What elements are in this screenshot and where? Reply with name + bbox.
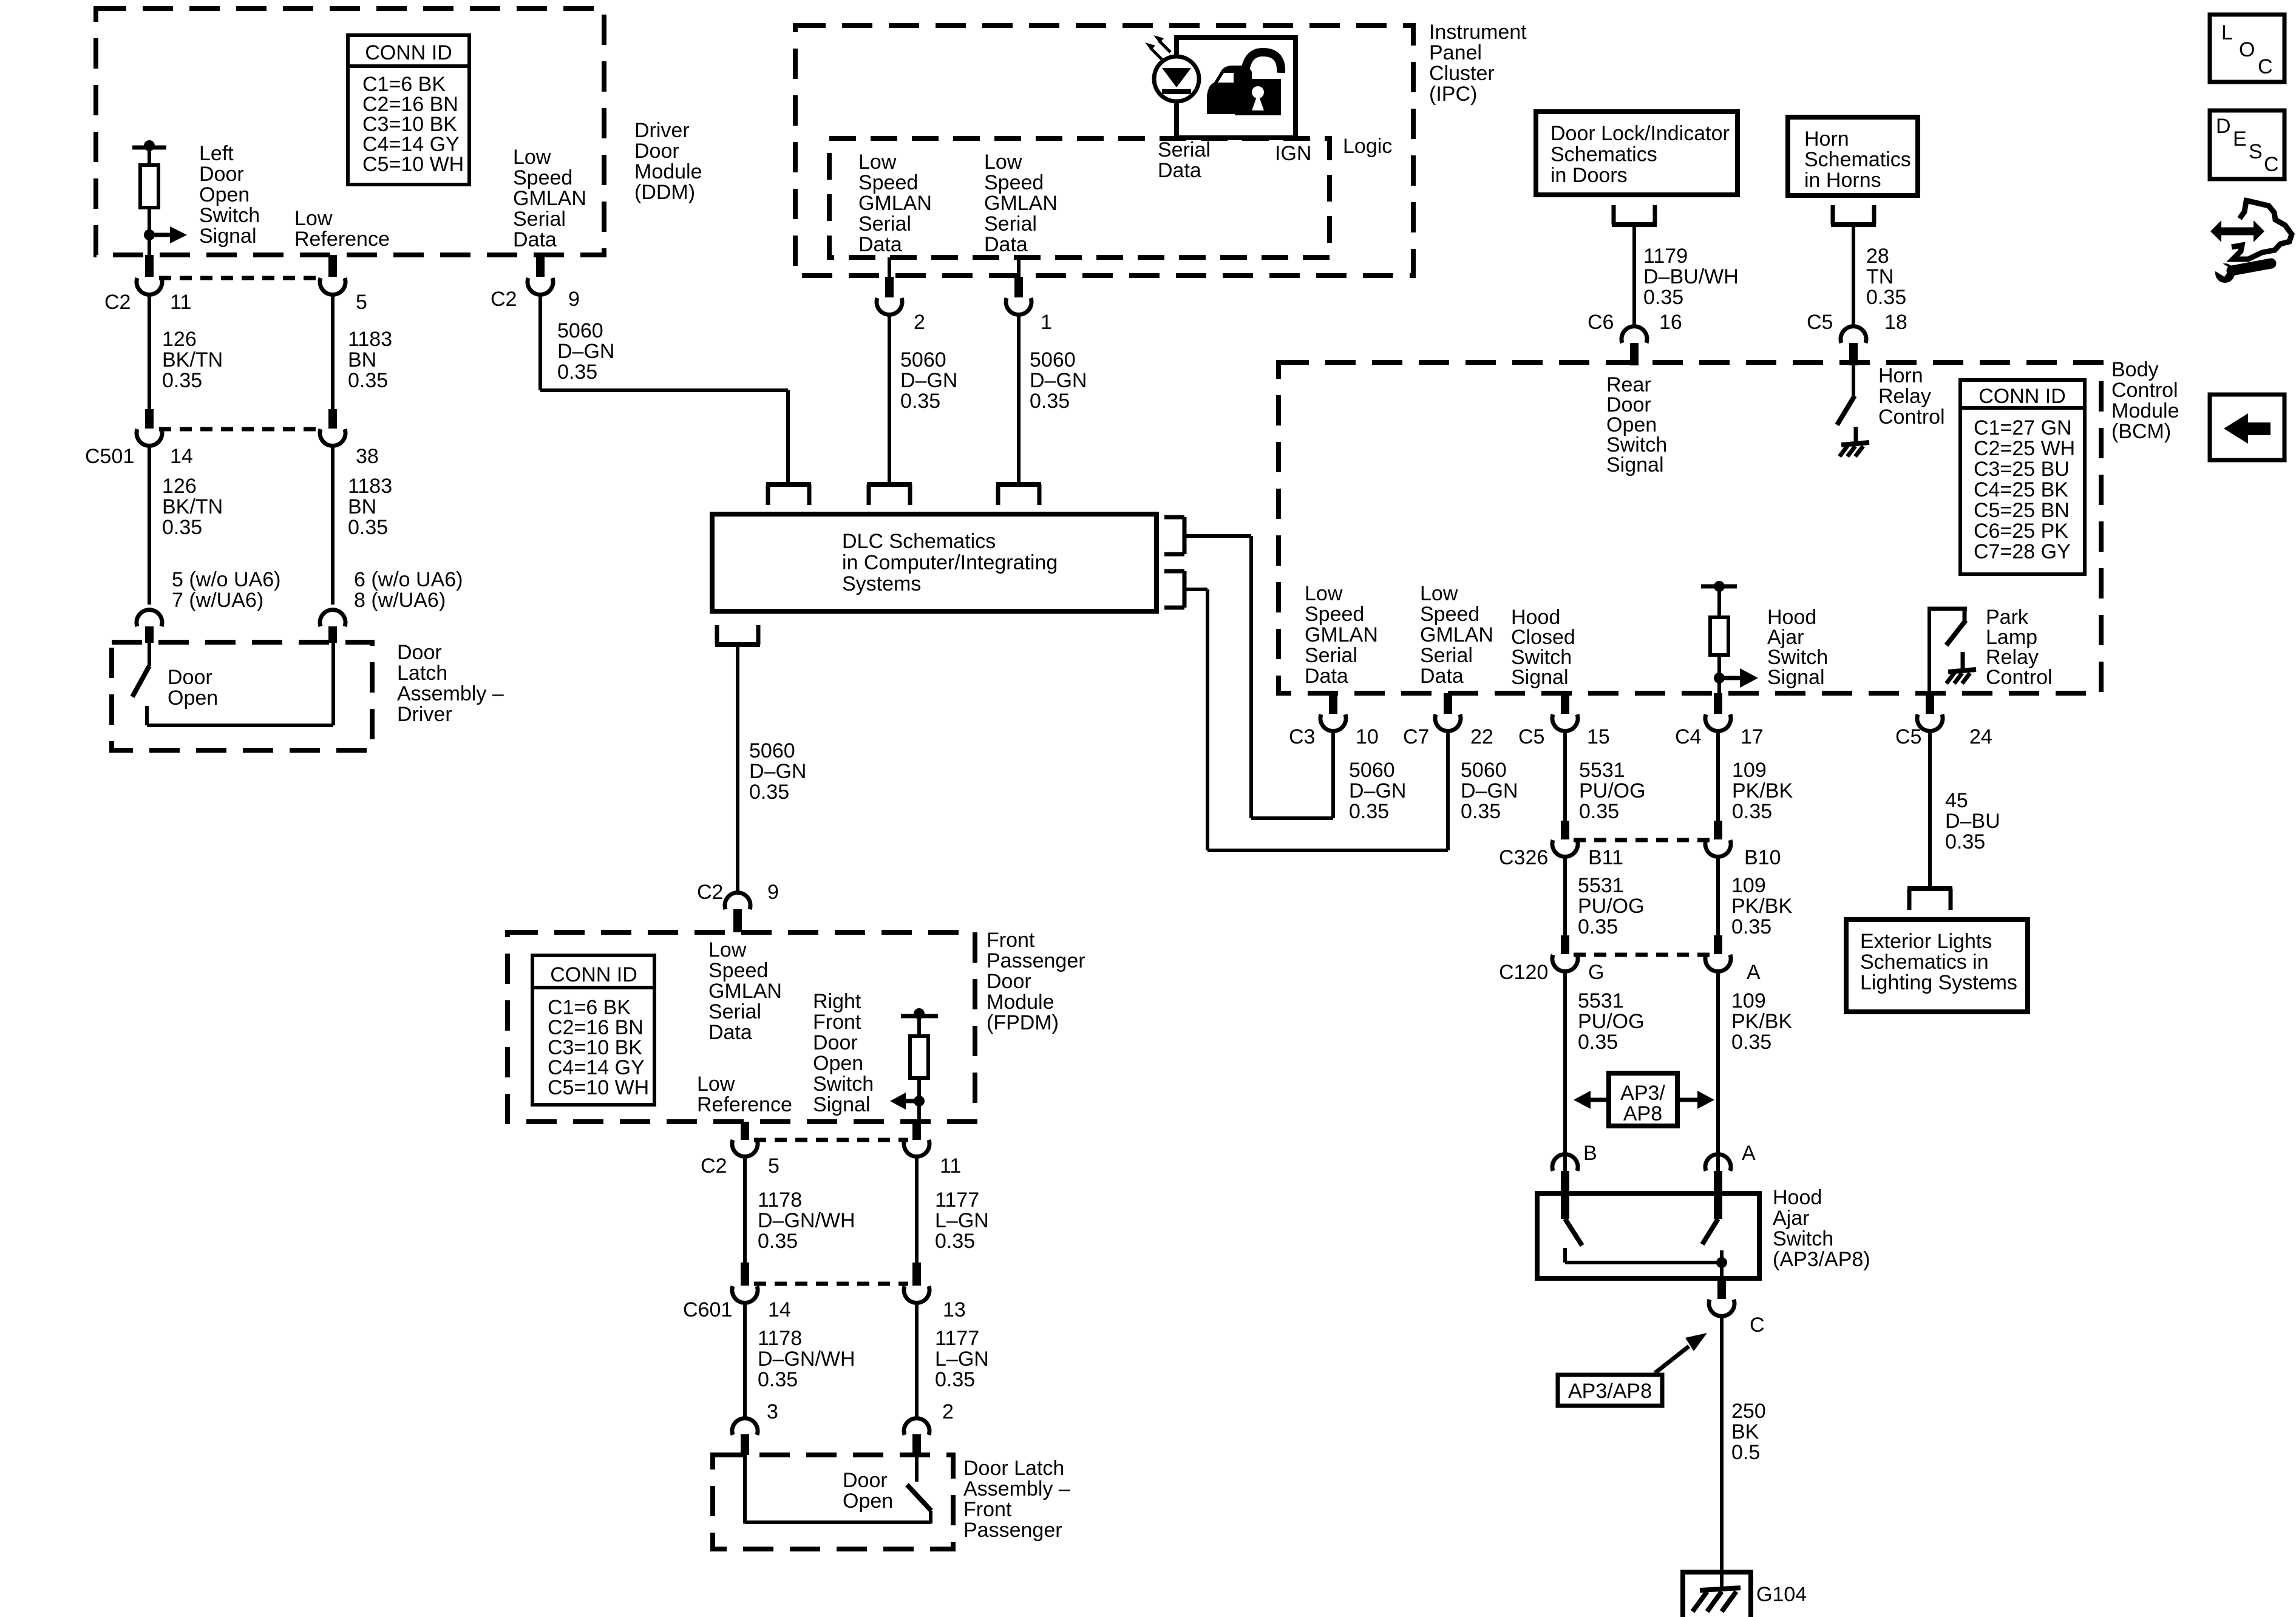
svg-text:D–GN: D–GN: [900, 369, 957, 392]
svg-text:Signal: Signal: [1767, 666, 1825, 689]
connector C326 pin B10: [1705, 821, 1731, 856]
svg-text:Speed: Speed: [984, 171, 1044, 194]
svg-text:Horn: Horn: [1878, 364, 1923, 387]
svg-text:Assembly –: Assembly –: [397, 682, 504, 705]
label wire 109 PK/BK 0.35 (C120): [1731, 989, 1792, 1054]
label G104: [1756, 1583, 1807, 1606]
connector C601 dashed line: [754, 1282, 908, 1286]
svg-text:0.35: 0.35: [758, 1368, 798, 1391]
connector into door latch driver right: [320, 610, 345, 643]
svg-text:Open: Open: [843, 1490, 893, 1513]
svg-text:PU/OG: PU/OG: [1578, 895, 1645, 918]
svg-text:Low: Low: [708, 938, 747, 961]
connector C601 pin 13: [904, 1263, 929, 1303]
label C5 24: [1895, 725, 1992, 748]
svg-text:126: 126: [162, 328, 197, 351]
svg-text:Open: Open: [813, 1052, 863, 1075]
svg-text:C2: C2: [701, 1154, 727, 1178]
svg-text:17: 17: [1741, 725, 1764, 748]
svg-text:(IPC): (IPC): [1429, 83, 1477, 106]
svg-text:Schematics: Schematics: [1804, 148, 1911, 171]
resistor R2 right door open switch pull-up: [901, 1008, 938, 1122]
svg-text:GMLAN: GMLAN: [984, 192, 1058, 215]
svg-text:Low: Low: [294, 207, 333, 230]
svg-text:250: 250: [1731, 1400, 1766, 1423]
DLC right bracket 2: [1164, 571, 1184, 608]
svg-text:C4: C4: [1675, 725, 1701, 748]
svg-text:Switch: Switch: [1773, 1227, 1833, 1250]
svg-text:14: 14: [170, 445, 193, 468]
BCM CONN ID table: [1960, 380, 2085, 574]
svg-text:0.35: 0.35: [1945, 830, 1985, 853]
svg-text:Serial: Serial: [1420, 644, 1473, 667]
svg-text:C501: C501: [85, 445, 134, 468]
svg-text:0.35: 0.35: [758, 1230, 798, 1253]
svg-text:BK/TN: BK/TN: [162, 495, 223, 518]
svg-text:1177: 1177: [935, 1188, 979, 1212]
label C2 pins 5 11: [701, 1154, 961, 1178]
park lamp relay control switch symbol: [1927, 609, 1976, 694]
label C601 pins: [683, 1298, 966, 1321]
svg-text:PK/BK: PK/BK: [1732, 779, 1793, 802]
svg-text:GMLAN: GMLAN: [513, 187, 586, 210]
svg-text:0.35: 0.35: [1461, 800, 1501, 823]
label Low Speed GMLAN Serial Data (IPC right): [984, 151, 1058, 256]
label wire 1178 D-GN/WH 0.35 upper: [758, 1188, 855, 1253]
label wire 1177 L-GN 0.35 lower: [935, 1327, 989, 1391]
label C7 22: [1403, 725, 1493, 748]
svg-text:Relay: Relay: [1878, 385, 1931, 408]
svg-text:PU/OG: PU/OG: [1578, 1010, 1645, 1033]
svg-text:A: A: [1742, 1142, 1756, 1165]
label B A: [1583, 1142, 1756, 1165]
svg-text:0.35: 0.35: [1866, 286, 1906, 309]
svg-text:Low: Low: [1305, 582, 1343, 605]
svg-text:L–GN: L–GN: [935, 1347, 989, 1371]
svg-text:0.35: 0.35: [1731, 1031, 1771, 1054]
svg-text:G104: G104: [1756, 1583, 1807, 1606]
label Door Latch Assembly Front Passenger: [963, 1457, 1070, 1542]
svg-text:Speed: Speed: [1420, 603, 1479, 626]
svg-text:G: G: [1588, 961, 1604, 984]
instrument panel cluster (IPC) dashed box: [795, 25, 1413, 276]
connector C326 pin B11: [1552, 821, 1578, 856]
svg-text:AP3/: AP3/: [1620, 1082, 1665, 1105]
IPC pin 1 lead: [1017, 257, 1021, 277]
svg-text:BK/TN: BK/TN: [162, 348, 223, 371]
svg-text:D–GN: D–GN: [557, 340, 614, 363]
svg-text:Door: Door: [168, 666, 212, 689]
wire B DLC to BCM C7: [1184, 589, 1448, 850]
DLC top bracket 3: [996, 484, 1041, 505]
svg-text:D–GN: D–GN: [1030, 369, 1087, 392]
label Park Lamp Relay Control: [1986, 606, 2053, 689]
DLC schematics box: [712, 514, 1156, 611]
svg-text:Low: Low: [984, 151, 1022, 174]
svg-text:D–GN: D–GN: [1349, 779, 1406, 802]
label Instrument Panel Cluster (IPC): [1429, 21, 1527, 106]
svg-text:0.35: 0.35: [1643, 286, 1683, 309]
svg-text:Switch: Switch: [813, 1073, 874, 1096]
svg-text:DLC Schematics: DLC Schematics: [842, 530, 996, 553]
resistor R1 left door open switch pull-up: [132, 140, 166, 255]
svg-text:11: 11: [940, 1154, 961, 1178]
svg-text:B: B: [1583, 1142, 1597, 1165]
svg-text:CONN ID: CONN ID: [1978, 385, 2066, 408]
svg-text:9: 9: [767, 881, 779, 904]
label Low Speed GMLAN Serial Data (BCM C3): [1305, 582, 1378, 688]
label Left Door Open Switch Signal: [199, 142, 260, 248]
svg-text:Data: Data: [1420, 665, 1464, 688]
svg-text:BK: BK: [1731, 1420, 1759, 1443]
ground G104: [1680, 1572, 1753, 1617]
label pins 6/8 w/o UA6: [354, 568, 463, 612]
connector C2 pin 5 (FPDM): [732, 1122, 758, 1156]
door latch assembly driver dashed box: [112, 642, 372, 750]
svg-text:C7: C7: [1403, 725, 1429, 748]
body control module (BCM) dashed box: [1279, 362, 2101, 693]
connector into door latch driver left: [137, 610, 162, 643]
label wire 5060 D-GN 0.35 (pin2): [900, 348, 957, 413]
label C5 18: [1807, 311, 1907, 334]
svg-text:7 (w/UA6): 7 (w/UA6): [172, 589, 263, 612]
svg-text:24: 24: [1969, 725, 1992, 748]
svg-text:0.5: 0.5: [1731, 1441, 1760, 1464]
svg-text:C6: C6: [1588, 311, 1614, 334]
svg-text:Passenger: Passenger: [987, 949, 1085, 972]
svg-text:TN: TN: [1866, 265, 1894, 288]
svg-text:Door: Door: [843, 1469, 888, 1492]
label C2 pin 9: [491, 288, 580, 311]
svg-text:in Doors: in Doors: [1550, 164, 1628, 187]
label wire 45 D-BU 0.35: [1945, 789, 2000, 853]
wire C4 to C326: [1716, 731, 1720, 824]
svg-text:Door: Door: [634, 140, 679, 163]
svg-text:5531: 5531: [1579, 759, 1625, 782]
svg-text:38: 38: [356, 445, 379, 468]
svg-text:D: D: [2216, 115, 2231, 138]
connector C7 pin 22 (BCM): [1435, 693, 1461, 731]
svg-text:C6=25 PK: C6=25 PK: [1974, 520, 2068, 543]
wire 5060 D-GN from DDM to DLC: [540, 294, 788, 483]
DLC right bracket 1: [1164, 517, 1184, 554]
svg-text:45: 45: [1945, 789, 1968, 812]
label C501 pin numbers: [85, 445, 379, 468]
door open switch (driver latch): [132, 642, 333, 725]
label wire 250 BK 0.5: [1731, 1400, 1766, 1464]
svg-text:0.35: 0.35: [1578, 1031, 1618, 1054]
label wire 5060 D-GN 0.35 (DDM): [557, 319, 614, 384]
svg-text:C7=28 GY: C7=28 GY: [1974, 540, 2071, 563]
svg-text:O: O: [2239, 38, 2255, 61]
wire 1183 BN upper: [331, 294, 335, 409]
svg-text:in Computer/Integrating: in Computer/Integrating: [842, 551, 1058, 574]
svg-text:Door: Door: [987, 970, 1031, 993]
svg-text:14: 14: [768, 1298, 791, 1321]
svg-text:Body: Body: [2111, 358, 2159, 381]
svg-text:A: A: [1747, 961, 1761, 984]
label Hood Closed Switch Signal: [1511, 606, 1575, 689]
label pins 5/7 w/o UA6: [172, 568, 281, 612]
svg-text:1183: 1183: [348, 475, 392, 498]
svg-text:15: 15: [1587, 725, 1610, 748]
connector C501 dashed connector line: [159, 427, 323, 432]
svg-text:IGN: IGN: [1275, 142, 1311, 165]
svg-text:Speed: Speed: [708, 959, 768, 982]
svg-text:5: 5: [768, 1154, 779, 1178]
connector pin C: [1709, 1278, 1734, 1316]
svg-text:2: 2: [914, 311, 925, 334]
label C4 17: [1675, 725, 1764, 748]
svg-text:5060: 5060: [1461, 759, 1507, 782]
svg-text:Low: Low: [1420, 582, 1458, 605]
svg-text:Speed: Speed: [858, 171, 918, 194]
label Door Open (passenger): [843, 1469, 893, 1513]
label pin 1: [1041, 311, 1052, 334]
svg-text:Control: Control: [2111, 379, 2178, 402]
label wire 1183 BN 0.35 upper: [348, 328, 392, 392]
svg-text:Horn: Horn: [1804, 127, 1849, 151]
svg-text:C2: C2: [491, 288, 517, 311]
label Door Open (driver): [168, 666, 218, 710]
hood ajar switch contacts: [1561, 1193, 1727, 1278]
svg-text:Signal: Signal: [1606, 453, 1664, 476]
svg-text:C: C: [2264, 153, 2279, 176]
svg-text:CONN ID: CONN ID: [365, 41, 452, 64]
svg-text:5060: 5060: [557, 319, 603, 342]
svg-text:Serial: Serial: [984, 212, 1037, 236]
svg-text:Serial: Serial: [1158, 138, 1211, 161]
svg-text:1183: 1183: [348, 328, 392, 351]
label C5 15: [1518, 725, 1610, 748]
svg-text:Data: Data: [708, 1021, 752, 1044]
svg-text:0.35: 0.35: [348, 516, 388, 539]
door lock/indicator schematics box: [1536, 112, 1737, 195]
svg-text:Reference: Reference: [294, 228, 390, 251]
connector C5 pin 24 (BCM): [1917, 693, 1943, 731]
label C120 G A: [1499, 961, 1761, 984]
svg-text:Signal: Signal: [813, 1093, 871, 1116]
svg-text:Instrument: Instrument: [1429, 21, 1527, 44]
svg-text:BN: BN: [348, 348, 376, 371]
label Low Speed GMLAN Serial Data (BCM C7): [1420, 582, 1493, 688]
svg-text:BN: BN: [348, 495, 376, 518]
wire 1178 D-GN/WH lower: [743, 1303, 747, 1419]
svg-text:1178: 1178: [758, 1327, 802, 1350]
svg-text:Data: Data: [513, 228, 557, 251]
DDM CONN ID table: [348, 35, 469, 185]
bracket below horn box: [1831, 205, 1876, 225]
label Hood Ajar Switch Signal: [1767, 606, 1828, 689]
connector into passenger latch pin 2: [904, 1419, 929, 1455]
svg-text:Module: Module: [987, 991, 1055, 1014]
door open switch (passenger latch): [745, 1455, 931, 1524]
wire 126 BK/TN upper: [148, 294, 151, 409]
LED indicator symbol: [1154, 38, 1199, 138]
svg-text:6 (w/o UA6): 6 (w/o UA6): [354, 568, 463, 591]
svg-text:AP8: AP8: [1623, 1102, 1662, 1125]
svg-text:C3=25 BU: C3=25 BU: [1974, 458, 2070, 481]
connector C120 pin A: [1705, 935, 1731, 971]
svg-text:D–BU/WH: D–BU/WH: [1643, 265, 1739, 288]
svg-text:Low: Low: [697, 1073, 735, 1096]
label wire 5531 PU/OG 0.35 (C120): [1578, 989, 1645, 1054]
label Exterior Lights Schematics in Lighting Systems: [1860, 930, 2017, 994]
svg-text:11: 11: [170, 291, 191, 314]
svg-text:0.35: 0.35: [348, 369, 388, 392]
wire 1178 D-GN/WH upper: [743, 1156, 747, 1263]
label pins 3 2: [767, 1400, 954, 1423]
svg-text:AP3/AP8: AP3/AP8: [1568, 1380, 1652, 1403]
component location icon (arrow and wrench): [2210, 198, 2292, 283]
svg-text:0.35: 0.35: [1731, 915, 1771, 938]
horn relay control switch symbol: [1837, 365, 1869, 456]
svg-text:8 (w/UA6): 8 (w/UA6): [354, 589, 446, 612]
connector C120 pin G: [1552, 935, 1578, 971]
svg-text:CONN ID: CONN ID: [550, 963, 637, 986]
connector hood switch pin A: [1705, 1154, 1731, 1193]
horn schematics box: [1788, 117, 1918, 195]
svg-text:D–GN/WH: D–GN/WH: [758, 1347, 855, 1371]
label Low Speed GMLAN Serial Data (FPDM): [708, 938, 782, 1044]
wire A DLC to BCM C3: [1184, 536, 1333, 818]
svg-text:D–GN: D–GN: [749, 760, 806, 783]
svg-text:0.35: 0.35: [162, 369, 202, 392]
label Rear Door Open Switch Signal: [1606, 373, 1667, 476]
svg-text:Switch: Switch: [199, 204, 260, 227]
FPDM CONN ID table: [532, 955, 654, 1105]
svg-text:5060: 5060: [749, 739, 795, 762]
svg-text:D–GN/WH: D–GN/WH: [758, 1209, 855, 1232]
IPC logic dashed box: [829, 138, 1330, 257]
wire 1177 L-GN upper: [915, 1156, 919, 1263]
svg-text:0.35: 0.35: [162, 516, 202, 539]
svg-text:5060: 5060: [1349, 759, 1395, 782]
svg-text:1177: 1177: [935, 1327, 979, 1350]
svg-text:(AP3/AP8): (AP3/AP8): [1773, 1248, 1870, 1271]
connector IPC pin 1: [1006, 277, 1031, 314]
svg-text:D–GN: D–GN: [1461, 779, 1518, 802]
connector C2 dashed connector line: [159, 276, 323, 280]
connector C2 pin 11 (DDM): [137, 255, 162, 294]
label wire 28 TN 0.35: [1866, 245, 1906, 309]
svg-text:Right: Right: [813, 990, 861, 1013]
svg-text:0.35: 0.35: [935, 1368, 975, 1391]
svg-text:28: 28: [1866, 245, 1889, 268]
IPC indicator icon solid box: [1177, 38, 1296, 138]
connector C120 dashed line: [1574, 953, 1710, 957]
svg-text:C: C: [2258, 55, 2273, 78]
AP3/AP8 callout box with arrow: [1558, 1333, 1707, 1406]
label Logic: [1343, 135, 1392, 158]
label wire 126 BK/TN 0.35 upper: [162, 328, 223, 392]
label wire 1183 BN 0.35 lower: [348, 475, 392, 539]
svg-text:L–GN: L–GN: [935, 1209, 989, 1232]
svg-text:0.35: 0.35: [935, 1230, 975, 1253]
label Hood Ajar Switch (AP3/AP8): [1773, 1186, 1870, 1271]
svg-text:Hood: Hood: [1773, 1186, 1822, 1209]
svg-text:Module: Module: [2111, 399, 2179, 422]
bracket below door lock box: [1612, 205, 1657, 225]
svg-text:5531: 5531: [1578, 989, 1624, 1012]
svg-text:C5: C5: [1518, 725, 1544, 748]
svg-text:Serial: Serial: [708, 1000, 761, 1023]
connector C601 pin 14: [732, 1263, 758, 1303]
svg-text:Systems: Systems: [842, 572, 921, 595]
label wire 1177 L-GN 0.35 upper: [935, 1188, 989, 1253]
svg-text:Logic: Logic: [1343, 135, 1392, 158]
connector into passenger latch pin 3: [732, 1419, 758, 1455]
svg-text:(FPDM): (FPDM): [987, 1011, 1059, 1034]
connector C326 dashed line: [1574, 838, 1710, 842]
label C2 pin 9 (FPDM): [697, 881, 779, 904]
svg-text:in Horns: in Horns: [1804, 169, 1881, 192]
svg-text:(DDM): (DDM): [634, 181, 695, 204]
wire 250 BK: [1720, 1316, 1724, 1589]
svg-text:Assembly –: Assembly –: [963, 1477, 1070, 1500]
svg-text:GMLAN: GMLAN: [708, 980, 782, 1003]
connector IPC pin 2: [877, 277, 902, 314]
svg-text:Control: Control: [1986, 666, 2053, 689]
svg-text:Control: Control: [1878, 405, 1945, 429]
connector C2 pin 5 (DDM): [320, 255, 345, 294]
svg-text:B11: B11: [1588, 846, 1623, 869]
svg-text:0.35: 0.35: [1349, 800, 1389, 823]
svg-text:PK/BK: PK/BK: [1731, 1010, 1792, 1033]
wire C326 to C120 right: [1716, 856, 1720, 938]
label pin 2: [914, 311, 925, 334]
connector C501 pin 38: [320, 409, 345, 446]
svg-text:109: 109: [1732, 759, 1767, 782]
DLC bottom bracket: [715, 625, 760, 645]
wire C120 to hood switch A: [1716, 971, 1720, 1171]
svg-text:Speed: Speed: [513, 166, 572, 189]
wire 1183 BN lower: [331, 446, 335, 605]
front passenger door module dashed box: [508, 932, 975, 1122]
svg-text:Module: Module: [634, 160, 702, 183]
svg-text:C5: C5: [1895, 725, 1921, 748]
svg-text:Data: Data: [1305, 665, 1348, 688]
door latch assembly front passenger dashed box: [713, 1455, 953, 1549]
label Low Reference: [294, 207, 390, 251]
wire C5 to C326: [1563, 731, 1567, 824]
svg-text:Left: Left: [199, 142, 234, 165]
svg-text:2: 2: [942, 1400, 954, 1423]
svg-text:18: 18: [1884, 311, 1907, 334]
svg-text:109: 109: [1731, 989, 1766, 1012]
wire 1179 D-BU/WH: [1632, 225, 1636, 326]
label wire 5060 D-GN 0.35 (C3): [1349, 759, 1406, 823]
label Driver Door Module (DDM): [634, 119, 702, 204]
svg-text:0.35: 0.35: [1579, 800, 1619, 823]
label Front Passenger Door Module (FPDM): [987, 929, 1085, 1034]
connector C4 pin 17 (BCM): [1705, 693, 1731, 731]
svg-text:D–BU: D–BU: [1945, 810, 2000, 833]
svg-text:Door: Door: [813, 1031, 858, 1054]
connector C5 pin 18: [1841, 327, 1866, 365]
wire C326 to C120 left: [1563, 856, 1567, 938]
svg-text:PU/OG: PU/OG: [1579, 779, 1646, 802]
wire 126 BK/TN lower: [148, 446, 151, 605]
label wire 5060 D-GN 0.35 (DLC to FPDM): [749, 739, 806, 804]
label wire 109 PK/BK 0.35 (C326): [1731, 874, 1792, 938]
svg-text:5060: 5060: [1030, 348, 1076, 371]
wire 1177 L-GN lower: [915, 1303, 919, 1419]
svg-text:C4=25 BK: C4=25 BK: [1974, 478, 2068, 501]
IPC pin 2 lead: [888, 257, 891, 277]
svg-text:C120: C120: [1499, 961, 1548, 984]
label wire 1179 D-BU/WH 0.35: [1643, 245, 1739, 309]
